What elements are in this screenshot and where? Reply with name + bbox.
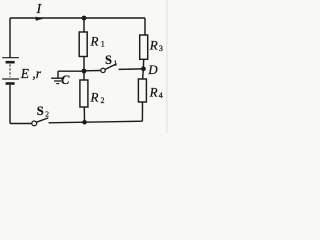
svg-text:R: R [149,85,158,100]
switch S1 : blade [105,64,116,70]
wire top dot to R1 [83,18,85,32]
node bottom junction [82,120,87,125]
wire left vertical (top, battery to corner) [9,18,11,58]
capacitor C : vertical lead [57,71,59,78]
svg-text:S: S [105,53,112,67]
svg-text:2: 2 [101,96,105,105]
svg-text:S: S [37,104,44,118]
node middle junction [82,69,87,74]
wire R1 to middle node [83,57,85,72]
svg-text:E ,r: E ,r [20,66,42,81]
wire right vertical (top corner to R3) [143,18,146,35]
svg-text:2: 2 [45,110,49,119]
resistor R2 box [80,80,88,107]
svg-text:C: C [61,73,70,87]
svg-text:D: D [147,62,158,77]
wire node D to R4 [142,71,145,79]
battery E,r : long plate (+, bottom cell) [2,78,19,80]
resistor R1 box [79,32,87,57]
resistor R4 box [138,79,146,102]
switch S1 : wire from middle node to pivot [84,70,101,72]
wire R3 to node D [142,59,144,66]
svg-text:1: 1 [114,59,118,68]
battery E,r : short thick plate (-, top cell) [6,61,15,64]
wire R4 to bottom corner [141,102,143,121]
capacitor C : plate 2 [54,80,61,82]
wire middle node to R2 [83,71,85,80]
battery E,r : dashed link between cells [9,64,11,77]
wire R2 to bottom dot [83,107,85,122]
switch S1 : pivot circle [101,68,105,72]
scan artifact: faint right-edge streak [166,0,167,133]
battery E,r : short thick plate (-, bottom cell) [6,82,15,85]
svg-text:4: 4 [159,91,163,100]
capacitor C : wire from middle node [58,70,84,72]
wire left vertical (battery bottom to corner) [9,85,11,124]
capacitor C : plate 1 (long) [51,77,64,79]
capacitor C : plate 3 (short) [56,83,59,85]
switch S2 : blade [37,118,49,122]
svg-text:R: R [90,34,99,49]
current arrow I [36,18,43,20]
node top junction [82,16,87,21]
svg-text:1: 1 [101,40,105,49]
resistor R3 box [140,35,148,59]
switch S1 : wire to node D [119,68,142,71]
wire bottom horizontal (S2 to bottom-right corner) [49,121,143,123]
switch S2 : pivot circle [32,121,37,126]
node D dot [141,66,146,71]
svg-text:R: R [90,90,99,105]
battery E,r : long plate (+, top cell) [2,57,19,59]
svg-text:R: R [149,38,158,53]
wire bottom horizontal (left corner to S2) [10,123,32,125]
wire top horizontal [10,17,145,19]
svg-text:3: 3 [159,44,163,53]
